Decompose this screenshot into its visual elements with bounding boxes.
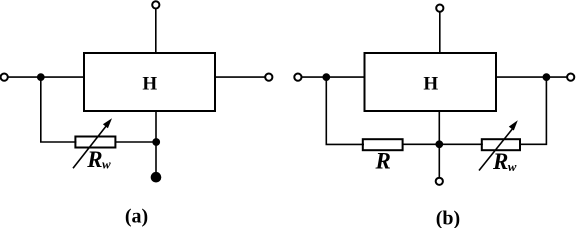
wire junction J1 down (a): [40, 77, 42, 142]
wire junction J3 down and across to resistor R (b): [326, 77, 364, 144]
node junction J2 (a): [152, 138, 160, 146]
terminal 2 (a) left input terminal: [1, 74, 8, 81]
value label Rw (a): [86, 147, 111, 172]
wire left terminal to H box (b): [301, 76, 364, 78]
node junction J1 (a): [37, 73, 45, 81]
wire node J4 to resistor Rw left lead (b): [439, 143, 483, 145]
terminal 8 (b) bottom terminal: [436, 178, 443, 185]
Hall element H2 box (circuit b): [365, 53, 497, 111]
svg-text:w: w: [102, 157, 111, 172]
terminal 1 (a) top control-current terminal: [152, 1, 159, 8]
node junction J3 (b): [322, 73, 330, 81]
variable-resistor arrow (a): [73, 118, 112, 168]
terminal 5 (b) top control-current terminal: [436, 5, 443, 12]
terminal 4 (a) right output terminal: [265, 74, 272, 81]
resistor R body (b): [363, 139, 403, 150]
terminal 7 (b) right output terminal: [567, 74, 574, 81]
wire to resistor Rw left lead (a): [40, 141, 76, 143]
wire H box bottom through node J4 to bottom terminal (b): [438, 111, 440, 178]
wire H box right to right terminal (a): [215, 76, 265, 78]
wire top terminal to H box (b): [439, 12, 441, 53]
variable-resistor arrow (b): [479, 120, 518, 170]
svg-text:R: R: [492, 149, 508, 174]
wire resistor Rw right lead to node J2 (a): [115, 141, 156, 143]
wire H box right to right terminal (b): [496, 76, 567, 78]
svg-text:R: R: [86, 147, 102, 172]
svg-text:(b): (b): [436, 207, 460, 228]
wire resistor R right lead to node J4 (b): [403, 143, 440, 145]
wire resistor Rw right lead up to node J5 (b): [520, 77, 546, 144]
Hall element H1 box (circuit a): [84, 53, 215, 111]
wire H box bottom to solid terminal (a): [155, 111, 157, 175]
svg-text:R: R: [375, 149, 391, 174]
svg-text:H: H: [142, 74, 157, 95]
svg-text:H: H: [423, 74, 438, 95]
resistor Rw body (a): [75, 137, 115, 148]
value label Rw (b): [492, 149, 517, 174]
resistor Rw body (b): [482, 139, 520, 150]
node junction J4 (b): [435, 140, 443, 148]
svg-text:w: w: [508, 159, 517, 174]
wire top terminal to H box (a): [155, 8, 157, 53]
svg-text:(a): (a): [125, 206, 148, 228]
terminal 3 (a) bottom solid terminal: [151, 172, 162, 183]
terminal 6 (b) left input terminal: [294, 74, 301, 81]
wire left terminal to H box (a): [8, 76, 84, 78]
node junction J5 (b): [543, 73, 551, 81]
